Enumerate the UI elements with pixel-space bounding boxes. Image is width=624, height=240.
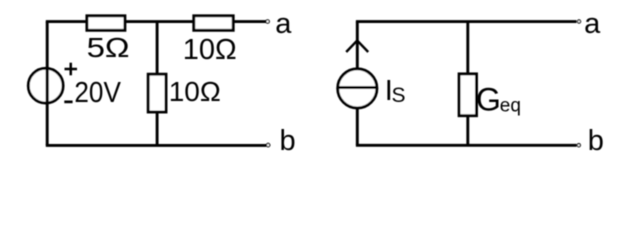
current source IS bar xyxy=(338,86,377,89)
wire middle branch lower (left circuit) xyxy=(156,112,159,145)
conductance Geq body xyxy=(459,74,476,116)
svg-text:b: b xyxy=(588,125,604,157)
wire left vertical (left circuit) xyxy=(46,22,49,146)
current source IS arrow xyxy=(346,41,368,53)
wire left vertical upper (right circuit) xyxy=(356,22,359,69)
wire 5ohm to 10ohm xyxy=(125,20,194,23)
svg-text:G: G xyxy=(476,82,501,118)
svg-text:a: a xyxy=(275,8,292,40)
terminal a dot (right circuit) xyxy=(577,20,580,23)
terminal b dot (right circuit) xyxy=(577,144,580,147)
wire middle branch upper (right circuit) xyxy=(466,22,469,75)
svg-text:5Ω: 5Ω xyxy=(87,32,130,63)
wire top segment V1 to 5ohm xyxy=(46,20,88,23)
terminal b dot (left circuit) xyxy=(266,143,269,146)
wire 10ohm to terminal a xyxy=(233,20,266,23)
wire top (right circuit) xyxy=(356,20,577,23)
voltage source plus sign xyxy=(65,68,78,71)
wire middle branch upper (left circuit) xyxy=(156,22,159,75)
wire bottom (left circuit) xyxy=(46,144,266,147)
svg-text:20V: 20V xyxy=(74,77,121,109)
voltage source minus sign xyxy=(64,100,72,103)
wire middle branch lower (right circuit) xyxy=(466,116,469,146)
wire bottom (right circuit) xyxy=(356,144,577,147)
terminal a dot (left circuit) xyxy=(266,20,269,23)
resistor 10ohm vertical body xyxy=(148,74,166,112)
svg-text:b: b xyxy=(280,125,296,157)
current source IS circle xyxy=(338,69,377,108)
wire left vertical lower (right circuit) xyxy=(356,108,359,145)
voltage source V1 circle xyxy=(28,68,63,103)
resistor 5ohm body xyxy=(87,16,125,30)
resistor 10ohm horizontal body xyxy=(194,16,233,30)
svg-text:eq: eq xyxy=(500,96,521,117)
svg-text:10Ω: 10Ω xyxy=(169,76,221,107)
voltage source V1 wire through circle xyxy=(46,68,49,104)
svg-text:a: a xyxy=(584,8,601,40)
svg-text:S: S xyxy=(392,84,406,107)
svg-text:10Ω: 10Ω xyxy=(183,34,237,66)
